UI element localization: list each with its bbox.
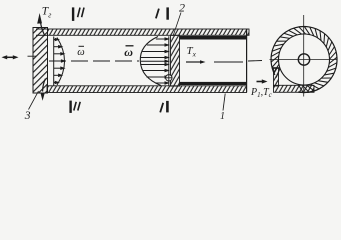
svg-text:ω: ω <box>77 47 84 58</box>
svg-text:3: 3 <box>24 110 31 122</box>
svg-text:1: 1 <box>220 111 225 122</box>
svg-text:ω: ω <box>124 45 133 59</box>
svg-text:2: 2 <box>179 1 185 15</box>
